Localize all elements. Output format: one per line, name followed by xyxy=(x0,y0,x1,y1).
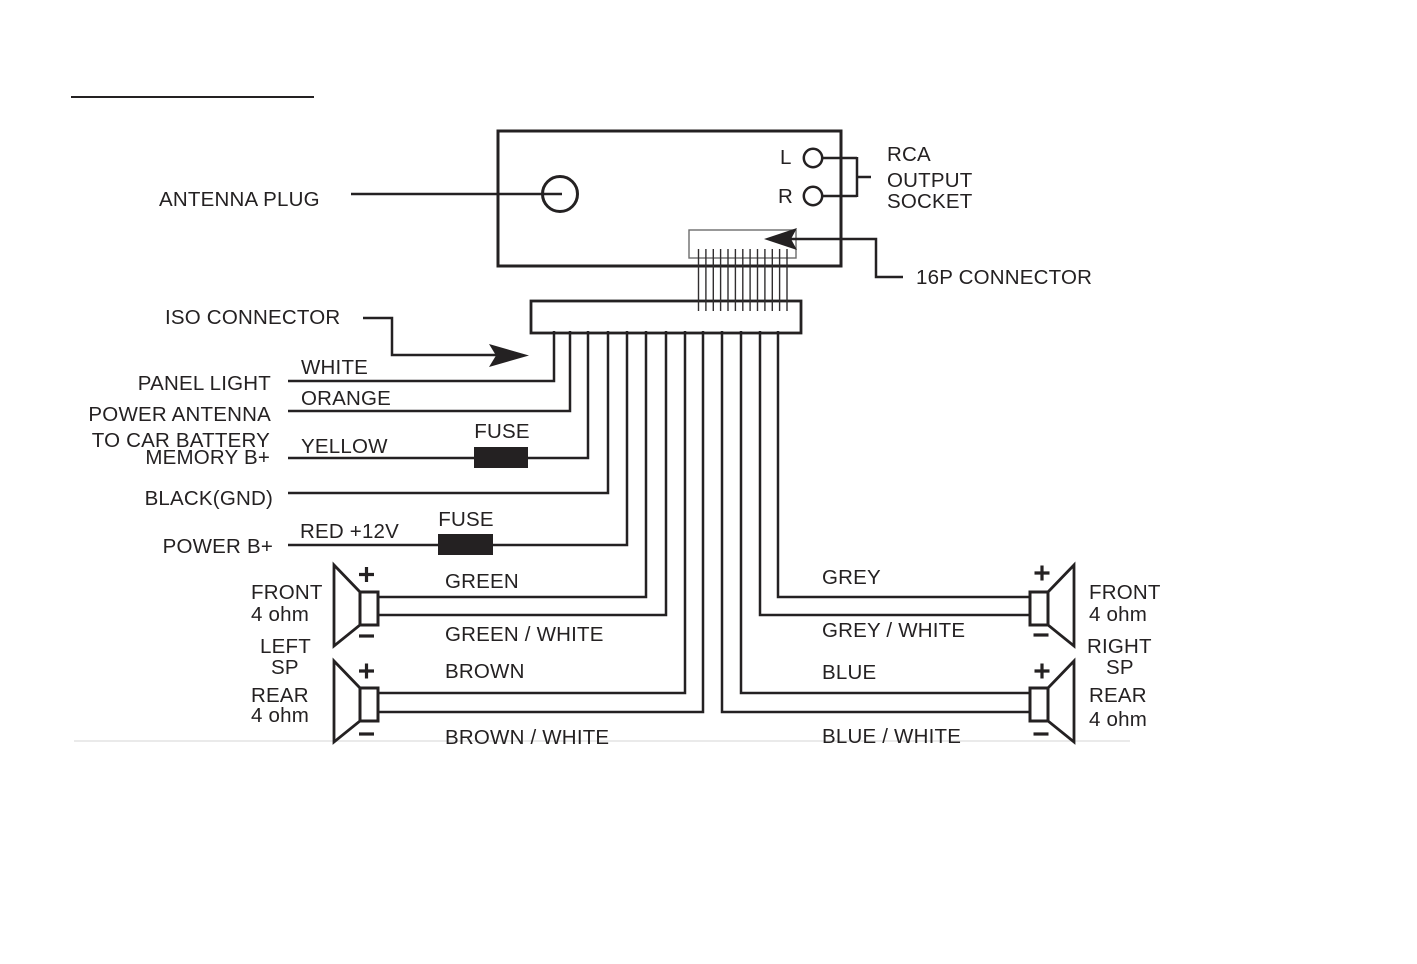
svg-text:GREEN: GREEN xyxy=(445,570,519,593)
16P pointer arrowhead xyxy=(764,228,797,250)
svg-text:OUTPUT: OUTPUT xyxy=(887,169,973,192)
svg-text:RIGHT: RIGHT xyxy=(1087,635,1152,658)
svg-text:LEFT: LEFT xyxy=(260,635,311,658)
wire blue/white (rear right -) xyxy=(722,331,1030,712)
svg-text:YELLOW: YELLOW xyxy=(301,435,388,458)
svg-text:GREY: GREY xyxy=(822,566,881,589)
svg-text:SOCKET: SOCKET xyxy=(887,190,973,213)
wire brown/white (rear left -) xyxy=(378,331,703,712)
svg-text:POWER B+: POWER B+ xyxy=(163,535,273,558)
svg-text:ANTENNA PLUG: ANTENNA PLUG xyxy=(159,188,320,211)
minus rear left xyxy=(359,732,374,735)
ISO pointer line xyxy=(363,318,500,355)
svg-text:SP: SP xyxy=(1106,656,1134,679)
wire green/white (front left -) xyxy=(378,331,666,615)
svg-text:BROWN / WHITE: BROWN / WHITE xyxy=(445,726,609,749)
plus front right xyxy=(1035,566,1050,581)
svg-text:BLUE: BLUE xyxy=(822,661,876,684)
wire blue (rear right +) xyxy=(741,331,1030,693)
svg-text:FRONT: FRONT xyxy=(251,581,323,604)
svg-text:BLUE / WHITE: BLUE / WHITE xyxy=(822,725,961,748)
wire grey (front right +) xyxy=(778,331,1030,597)
svg-text:RED +12V: RED +12V xyxy=(300,520,399,543)
svg-text:MEMORY B+: MEMORY B+ xyxy=(145,446,270,469)
minus front right xyxy=(1034,633,1049,636)
svg-text:WHITE: WHITE xyxy=(301,356,368,379)
wire antenna lead xyxy=(351,193,562,196)
svg-text:BLACK(GND): BLACK(GND) xyxy=(145,487,273,510)
svg-text:FRONT: FRONT xyxy=(1089,581,1161,604)
svg-text:R: R xyxy=(778,185,793,208)
label TO CAR BATTERY MEMORY B+ xyxy=(92,429,270,469)
wire white (panel light) xyxy=(288,331,554,381)
plus rear right xyxy=(1035,664,1050,679)
wire red (power B+) xyxy=(288,331,627,545)
minus rear right xyxy=(1034,732,1049,735)
svg-text:BROWN: BROWN xyxy=(445,660,525,683)
svg-text:FUSE: FUSE xyxy=(438,508,493,531)
16P connector body xyxy=(689,230,796,258)
svg-text:PANEL LIGHT: PANEL LIGHT xyxy=(138,372,271,395)
svg-text:GREY / WHITE: GREY / WHITE xyxy=(822,619,965,642)
svg-text:ORANGE: ORANGE xyxy=(301,387,391,410)
head unit box xyxy=(498,131,841,266)
plus front left xyxy=(359,567,374,582)
wire orange (power antenna) xyxy=(288,331,570,411)
label FRONT 4 ohm (right) xyxy=(1089,581,1161,626)
svg-text:RCA: RCA xyxy=(887,143,931,166)
svg-text:REAR: REAR xyxy=(1089,684,1147,707)
ISO pointer arrowhead xyxy=(489,344,529,367)
label FRONT 4 ohm (left) xyxy=(251,581,323,626)
svg-text:ISO CONNECTOR: ISO CONNECTOR xyxy=(165,306,340,329)
svg-text:L: L xyxy=(780,146,792,169)
wire green (front left +) xyxy=(378,331,646,597)
RCA bracket xyxy=(857,157,871,197)
svg-text:4 ohm: 4 ohm xyxy=(1089,603,1147,626)
fuse F2 xyxy=(438,534,493,555)
label REAR 4 ohm (right) xyxy=(1089,684,1147,731)
svg-text:GREEN / WHITE: GREEN / WHITE xyxy=(445,623,604,646)
svg-text:POWER ANTENNA: POWER ANTENNA xyxy=(88,403,271,426)
svg-text:4 ohm: 4 ohm xyxy=(251,603,309,626)
title underline xyxy=(71,96,314,98)
16P pointer line xyxy=(791,239,903,277)
svg-text:16P CONNECTOR: 16P CONNECTOR xyxy=(916,266,1092,289)
label RIGHT SP xyxy=(1087,635,1152,679)
antenna plug socket xyxy=(543,177,578,212)
wire black (ground) xyxy=(288,331,608,493)
label REAR 4 ohm (left) xyxy=(251,684,309,727)
wire grey/white (front right -) xyxy=(760,331,1030,615)
label LEFT SP xyxy=(260,635,311,679)
wire brown (rear left +) xyxy=(378,331,685,693)
speaker rear right xyxy=(1030,661,1074,742)
faint page rule xyxy=(74,740,1130,742)
RCA L jack xyxy=(780,146,857,169)
ISO connector bar xyxy=(531,301,801,333)
speaker front right xyxy=(1030,565,1074,646)
RCA R jack xyxy=(778,185,857,208)
RCA output socket label xyxy=(887,143,973,213)
speaker rear left xyxy=(334,661,378,742)
svg-text:SP: SP xyxy=(271,656,299,679)
svg-text:FUSE: FUSE xyxy=(474,420,529,443)
wire yellow (memory B+) xyxy=(288,331,588,458)
fuse F1 xyxy=(474,447,528,468)
minus front left xyxy=(359,634,374,637)
svg-text:4 ohm: 4 ohm xyxy=(1089,708,1147,731)
svg-text:4 ohm: 4 ohm xyxy=(251,704,309,727)
speaker front left xyxy=(334,565,378,646)
16P ribbon wires xyxy=(699,249,788,311)
plus rear left xyxy=(359,664,374,679)
